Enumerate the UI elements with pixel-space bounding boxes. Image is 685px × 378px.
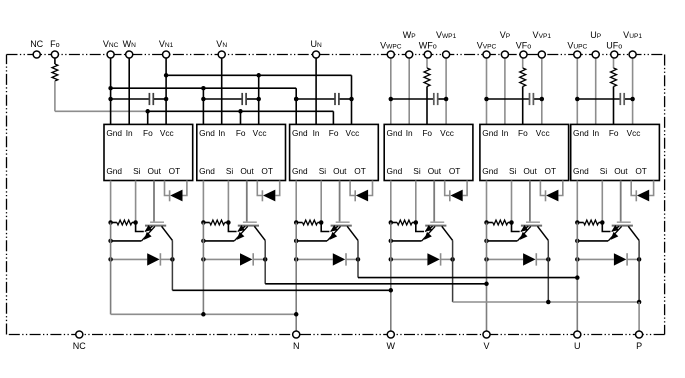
svg-text:Fo: Fo xyxy=(236,128,246,138)
junction dot cap C2 right xyxy=(256,97,261,102)
svg-text:V: V xyxy=(483,341,489,351)
svg-text:Gnd: Gnd xyxy=(106,128,122,138)
svg-text:Vcc: Vcc xyxy=(440,128,454,138)
wire WP terminal to driver 4 In xyxy=(408,55,410,125)
wire VVPC terminal to driver 5 Gnd xyxy=(486,55,488,125)
junction dot emitter/Gnd xyxy=(484,239,489,244)
terminal WN xyxy=(123,39,137,58)
wire VUP1 terminal to driver 6 Vcc xyxy=(632,55,634,125)
svg-text:Vcc: Vcc xyxy=(160,128,174,138)
svg-text:Out: Out xyxy=(614,166,628,176)
wire driver 1 Fo from rail xyxy=(147,111,149,124)
terminal UN xyxy=(310,39,322,58)
terminal VUP1 xyxy=(623,30,642,58)
svg-text:UFo: UFo xyxy=(606,40,622,50)
wire Q5 emitter/Gnd vertical to output terminal xyxy=(486,223,488,335)
wire WFo resistor to driver 4 Fo xyxy=(426,87,428,125)
OT clamp diode D3a xyxy=(355,190,368,202)
svg-text:WP: WP xyxy=(403,30,417,40)
wire Q6 collector to P terminal xyxy=(638,302,640,335)
svg-text:OT: OT xyxy=(354,166,366,176)
freewheel diode D6 xyxy=(614,253,627,265)
capacitor C4 plates xyxy=(434,93,438,105)
wire P rail (Q4/Q5/Q6 collectors) xyxy=(453,301,639,303)
svg-text:WFo: WFo xyxy=(419,40,437,50)
IGBT Q5 xyxy=(517,222,548,241)
gate driver IC U2 xyxy=(197,124,286,180)
wire N rail (emitters of Q1,Q2,Q3) xyxy=(111,313,297,315)
junction dot cap C1 right xyxy=(164,97,169,102)
junction dot cap C1 left xyxy=(108,97,113,102)
svg-text:Fo: Fo xyxy=(329,128,339,138)
junction dot emitter/Gnd xyxy=(575,239,580,244)
capacitor C3 leads (driver 3 Gnd-Vcc) xyxy=(296,98,351,100)
wire driver 2 Gnd pin stub xyxy=(202,181,204,223)
wire driver 3 Out pin (gate) stub xyxy=(339,181,341,222)
svg-text:VN: VN xyxy=(216,39,227,49)
junction dot R4 right (Si node) xyxy=(414,220,419,225)
freewheel diode D2 cathode lead xyxy=(253,258,265,260)
freewheel diode D3 xyxy=(333,253,346,265)
OT clamp diode D5a xyxy=(546,190,559,202)
terminal P (bottom) xyxy=(636,331,643,351)
wire driver 2 Vcc from rail xyxy=(258,75,260,124)
junction dot N rail / N column xyxy=(294,312,299,317)
wire Si node to sense emitter xyxy=(512,223,520,232)
wire main emitter to Gnd line xyxy=(111,240,142,242)
freewheel diode D4 cathode lead xyxy=(441,258,453,260)
terminal U (bottom) xyxy=(574,331,581,351)
wire driver 3 Fo from rail xyxy=(332,111,334,124)
module outline border (dash-dot) xyxy=(7,55,665,335)
wire VFo terminal to resistor xyxy=(522,55,524,69)
OT clamp diode D4a xyxy=(450,190,463,202)
resistor on UFo line xyxy=(611,68,617,87)
svg-text:VN1: VN1 xyxy=(159,39,174,49)
svg-text:VFo: VFo xyxy=(516,40,532,50)
capacitor C4 leads (driver 4 Gnd-Vcc) xyxy=(391,98,446,100)
resistor on VFo line xyxy=(520,68,526,87)
svg-text:Si: Si xyxy=(413,166,421,176)
gate driver IC U6 xyxy=(571,124,660,180)
svg-text:U: U xyxy=(574,341,581,351)
svg-text:OT: OT xyxy=(449,166,461,176)
wire Q1 collector to W node xyxy=(172,289,390,291)
freewheel diode D3 anode lead xyxy=(296,258,333,260)
junction dot ground rail / driver 3 Gnd xyxy=(294,97,299,102)
wire WN terminal to driver 1 In xyxy=(128,55,130,125)
junction dot cap C2 left xyxy=(201,97,206,102)
freewheel diode D1 anode lead xyxy=(111,258,148,260)
wire main emitter to Gnd line xyxy=(487,240,518,242)
wire driver 6 Si pin stub xyxy=(601,181,603,223)
freewheel diode D5 anode lead xyxy=(487,258,524,260)
junction dot D3 cathode xyxy=(356,257,361,262)
junction dot Fo rail / driver 1 Fo xyxy=(145,109,150,114)
capacitor C6 leads (driver 6 Gnd-Vcc) xyxy=(577,98,632,100)
junction dot R6 left xyxy=(575,220,580,225)
terminal VVP1 xyxy=(533,30,552,58)
svg-text:OT: OT xyxy=(261,166,273,176)
junction dot R3 left xyxy=(294,220,299,225)
junction dot emitter/Gnd xyxy=(108,239,113,244)
junction dot cap C5 left xyxy=(484,97,489,102)
IGBT Q2 xyxy=(234,222,265,241)
wire main emitter to Gnd line xyxy=(296,240,327,242)
wire driver 5 OT diode bracket xyxy=(540,181,562,196)
svg-text:Out: Out xyxy=(428,166,442,176)
wire driver 6 Out pin (gate) stub xyxy=(620,181,622,222)
wire driver 1 OT diode bracket xyxy=(165,181,187,196)
wire Q5 collector vertical xyxy=(547,240,549,302)
svg-text:W: W xyxy=(387,341,396,351)
wire Si node to sense emitter xyxy=(136,223,144,232)
junction dot D5 anode xyxy=(484,257,489,262)
svg-text:Si: Si xyxy=(600,166,608,176)
capacitor C1 leads (driver 1 Gnd-Vcc) xyxy=(111,98,167,100)
wire driver 1 Gnd pin stub xyxy=(110,181,112,223)
wire VWPC terminal to driver 4 Gnd xyxy=(390,55,392,125)
capacitor C6 plates xyxy=(620,93,624,105)
junction dot R1 right (Si node) xyxy=(133,220,138,225)
wire Si node to sense emitter xyxy=(416,223,424,232)
svg-text:In: In xyxy=(406,128,413,138)
junction dot cap C3 left xyxy=(294,97,299,102)
svg-text:N: N xyxy=(293,341,300,351)
wire driver 4 Si pin stub xyxy=(415,181,417,223)
junction dot D4 cathode xyxy=(450,257,455,262)
junction dot R1 left xyxy=(108,220,113,225)
svg-text:Fo: Fo xyxy=(422,128,432,138)
wire VFo resistor to driver 5 Fo xyxy=(522,87,524,125)
wire Q3 collector to U node xyxy=(358,277,577,279)
terminal VNC xyxy=(103,39,119,58)
wire main emitter to Gnd line xyxy=(391,240,422,242)
gate driver IC U4 xyxy=(384,124,473,180)
terminal V (bottom) xyxy=(483,331,490,351)
svg-text:P: P xyxy=(636,341,642,351)
junction dot D2 cathode xyxy=(263,257,268,262)
freewheel diode D2 anode lead xyxy=(203,258,240,260)
svg-text:UN: UN xyxy=(310,39,322,49)
wire Fo resistor down to Fo rail xyxy=(54,81,56,111)
junction dot D6 anode xyxy=(575,257,580,262)
resistor on WFo line xyxy=(424,68,430,87)
IGBT Q3 xyxy=(327,222,358,241)
wire driver 3 OT diode bracket xyxy=(350,181,372,196)
svg-text:Out: Out xyxy=(148,166,162,176)
wire UN terminal to driver 3 In xyxy=(315,55,317,125)
svg-text:Fo: Fo xyxy=(50,39,60,49)
capacitor C2 plates xyxy=(242,93,246,105)
capacitor C1 plates xyxy=(149,93,153,105)
terminal WP xyxy=(403,30,417,58)
wire driver 5 Gnd pin stub xyxy=(486,181,488,223)
wire VNC terminal to driver 1 Gnd xyxy=(110,55,112,125)
wire Q1 collector vertical xyxy=(171,240,173,290)
svg-text:Gnd: Gnd xyxy=(106,166,122,176)
terminal UFo xyxy=(606,40,622,58)
terminal WFo xyxy=(419,40,437,58)
wire driver 5 Out pin (gate) stub xyxy=(529,181,531,222)
wire Q2 collector to V node xyxy=(265,283,486,285)
svg-text:Si: Si xyxy=(319,166,327,176)
junction dot D3 anode xyxy=(294,257,299,262)
terminal VUPC xyxy=(567,40,587,58)
svg-text:Gnd: Gnd xyxy=(199,128,215,138)
junction dot N rail / Q2 emitter xyxy=(201,312,206,317)
svg-text:Fo: Fo xyxy=(518,128,528,138)
freewheel diode D6 anode lead xyxy=(577,258,614,260)
wire WFo terminal to resistor xyxy=(426,55,428,69)
OT clamp diode D6a xyxy=(636,190,649,202)
svg-text:Fo: Fo xyxy=(609,128,619,138)
junction dot emitter/Gnd xyxy=(389,239,394,244)
wire VVP1 terminal to driver 5 Vcc xyxy=(541,55,543,125)
wire driver 2 Si pin stub xyxy=(227,181,229,223)
freewheel diode D3 cathode lead xyxy=(346,258,358,260)
terminal VP xyxy=(500,30,511,58)
wire UFo terminal to resistor xyxy=(613,55,615,69)
wire VUPC terminal to driver 6 Gnd xyxy=(576,55,578,125)
wire driver 2 OT diode bracket xyxy=(257,181,279,196)
junction dot cap C6 left xyxy=(575,97,580,102)
wire Si node to sense emitter xyxy=(602,223,610,232)
wire driver 6 OT diode bracket xyxy=(631,181,653,196)
capacitor C2 leads (driver 2 Gnd-Vcc) xyxy=(203,98,258,100)
wire Q2 collector vertical xyxy=(264,240,266,283)
wire UP terminal to driver 6 In xyxy=(595,55,597,125)
wire UFo resistor to driver 6 Fo xyxy=(613,87,615,125)
svg-text:Gnd: Gnd xyxy=(482,128,498,138)
terminal W (bottom) xyxy=(387,331,396,351)
junction dot P rail / Q6 collector xyxy=(637,300,642,305)
junction dot cap C4 left xyxy=(389,97,394,102)
sense resistor R3 xyxy=(296,220,321,225)
svg-text:Out: Out xyxy=(333,166,347,176)
wire driver 3 Si pin stub xyxy=(320,181,322,223)
sense resistor R4 xyxy=(391,220,416,225)
junction dot R2 left xyxy=(201,220,206,225)
svg-text:VNC: VNC xyxy=(103,39,119,49)
svg-text:OT: OT xyxy=(635,166,647,176)
svg-text:VUP1: VUP1 xyxy=(623,30,642,40)
wire driver 6 Gnd pin stub xyxy=(576,181,578,223)
terminal VN xyxy=(216,39,227,58)
junction dot ground rail / driver 2 Gnd xyxy=(201,86,206,91)
terminal N (bottom) xyxy=(293,331,300,351)
svg-text:OT: OT xyxy=(545,166,557,176)
terminal UP xyxy=(590,30,602,58)
wire VN1 terminal to driver 1 Vcc xyxy=(165,55,167,125)
junction dot Vcc rail / driver 2 Vcc xyxy=(256,73,261,78)
wire driver 4 OT diode bracket xyxy=(445,181,467,196)
wire Q3 emitter/Gnd vertical xyxy=(295,223,297,335)
junction dot Vcc rail / VN1 xyxy=(164,73,169,78)
wire VWP1 terminal to driver 4 Vcc xyxy=(445,55,447,125)
junction dot D5 cathode xyxy=(546,257,551,262)
svg-text:VVPC: VVPC xyxy=(477,40,497,50)
wire driver 4 Gnd pin stub xyxy=(390,181,392,223)
junction dot R3 right (Si node) xyxy=(319,220,324,225)
wire Q6 collector vertical xyxy=(638,240,640,302)
svg-text:NC: NC xyxy=(73,341,86,351)
wire driver 3 Gnd pin stub xyxy=(295,181,297,223)
wire Fo terminal to resistor xyxy=(54,55,56,65)
OT clamp diode D2a xyxy=(262,190,275,202)
IGBT Q6 xyxy=(608,222,639,241)
wire driver 2 Gnd from rail xyxy=(202,88,204,124)
junction dot D2 anode xyxy=(201,257,206,262)
wire driver 5 Si pin stub xyxy=(511,181,513,223)
svg-text:In: In xyxy=(592,128,599,138)
junction dot P rail / Q5 collector xyxy=(546,300,551,305)
wire Q6 emitter/Gnd vertical to output terminal xyxy=(576,223,578,335)
freewheel diode D6 cathode lead xyxy=(627,258,639,260)
svg-text:Gnd: Gnd xyxy=(387,128,403,138)
sense resistor R1 xyxy=(111,220,136,225)
svg-text:Vcc: Vcc xyxy=(345,128,359,138)
wire driver 4 Out pin (gate) stub xyxy=(433,181,435,222)
capacitor C3 plates xyxy=(335,93,339,105)
svg-text:Gnd: Gnd xyxy=(292,128,308,138)
gate driver IC U3 xyxy=(290,124,379,180)
junction dot emitter/Gnd xyxy=(201,239,206,244)
junction dot Q3 collector / U column xyxy=(575,275,580,280)
junction dot R2 right (Si node) xyxy=(226,220,231,225)
terminal VWPC xyxy=(380,40,402,58)
IGBT Q4 xyxy=(422,222,453,241)
svg-text:Gnd: Gnd xyxy=(482,166,498,176)
junction dot cap C5 right xyxy=(540,97,545,102)
wire VN1 Vcc rail (row A) xyxy=(166,75,351,124)
junction dot D1 cathode xyxy=(170,257,175,262)
svg-text:VWPC: VWPC xyxy=(380,40,402,50)
resistor on Fo line xyxy=(52,64,58,81)
junction dot D1 anode xyxy=(108,257,113,262)
terminal NC xyxy=(30,39,43,58)
wire Si node to sense emitter xyxy=(321,223,329,232)
junction dot cap C4 right xyxy=(444,97,449,102)
svg-text:Gnd: Gnd xyxy=(573,128,589,138)
svg-text:OT: OT xyxy=(169,166,181,176)
IGBT Q1 xyxy=(142,222,173,241)
junction dot R4 left xyxy=(389,220,394,225)
terminal Fo xyxy=(50,39,60,58)
svg-text:Vcc: Vcc xyxy=(253,128,267,138)
wire Si node to sense emitter xyxy=(228,223,236,232)
wire Q2 emitter/Gnd vertical xyxy=(202,223,204,315)
junction dot R6 right (Si node) xyxy=(600,220,605,225)
terminal VFo xyxy=(516,40,532,58)
sense resistor R2 xyxy=(203,220,228,225)
terminal VVPC xyxy=(477,40,497,58)
junction dot Q2 collector / V column xyxy=(484,282,489,287)
wire driver 1 Out pin (gate) stub xyxy=(153,181,155,222)
svg-text:Si: Si xyxy=(509,166,517,176)
svg-text:UP: UP xyxy=(590,30,602,40)
wire driver 3 Gnd into box xyxy=(295,99,297,124)
freewheel diode D1 cathode lead xyxy=(160,258,172,260)
svg-text:Vcc: Vcc xyxy=(536,128,550,138)
OT clamp diode D1a xyxy=(170,190,183,202)
terminal VN1 xyxy=(159,39,174,58)
svg-text:Out: Out xyxy=(523,166,537,176)
svg-text:Out: Out xyxy=(240,166,254,176)
freewheel diode D1 xyxy=(147,253,160,265)
svg-text:VVP1: VVP1 xyxy=(533,30,552,40)
gate driver IC U5 xyxy=(480,124,569,180)
junction dot R5 left xyxy=(484,220,489,225)
wire main emitter to Gnd line xyxy=(203,240,234,242)
wire driver 2 Out pin (gate) stub xyxy=(246,181,248,222)
junction dot cap C6 right xyxy=(630,97,635,102)
svg-text:Gnd: Gnd xyxy=(292,166,308,176)
sense resistor R6 xyxy=(577,220,602,225)
svg-text:NC: NC xyxy=(30,39,43,49)
wire Q4 collector vertical xyxy=(452,240,454,302)
junction dot ground rail / VNC xyxy=(108,86,113,91)
junction dot Q1 collector / W column xyxy=(389,288,394,293)
wire Q3 collector vertical xyxy=(357,240,359,277)
svg-text:Si: Si xyxy=(133,166,141,176)
wire main emitter to Gnd line xyxy=(577,240,608,242)
svg-text:VUPC: VUPC xyxy=(567,40,587,50)
wire driver 2 Fo from rail xyxy=(240,111,242,124)
junction dot emitter/Gnd xyxy=(294,239,299,244)
junction dot cap C3 right xyxy=(349,97,354,102)
terminal VWP1 xyxy=(436,30,457,58)
freewheel diode D4 xyxy=(427,253,440,265)
capacitor C5 leads (driver 5 Gnd-Vcc) xyxy=(487,98,542,100)
freewheel diode D5 xyxy=(523,253,536,265)
wire VP terminal to driver 5 In xyxy=(504,55,506,125)
freewheel diode D5 cathode lead xyxy=(536,258,548,260)
svg-text:Si: Si xyxy=(226,166,234,176)
wire driver 1 Si pin stub xyxy=(135,181,137,223)
terminal NC (bottom) xyxy=(73,331,86,351)
junction dot R5 right (Si node) xyxy=(509,220,514,225)
svg-text:In: In xyxy=(218,128,225,138)
freewheel diode D2 xyxy=(240,253,253,265)
svg-text:Fo: Fo xyxy=(143,128,153,138)
wire VN terminal to driver 2 In xyxy=(221,55,223,125)
svg-text:Gnd: Gnd xyxy=(573,166,589,176)
freewheel diode D4 anode lead xyxy=(391,258,428,260)
gate driver IC U1 xyxy=(104,124,193,180)
svg-text:Gnd: Gnd xyxy=(199,166,215,176)
svg-text:WN: WN xyxy=(123,39,137,49)
svg-text:VP: VP xyxy=(500,30,511,40)
capacitor C5 plates xyxy=(530,93,534,105)
svg-text:In: In xyxy=(313,128,320,138)
svg-text:VWP1: VWP1 xyxy=(436,30,457,40)
svg-text:In: In xyxy=(126,128,133,138)
junction dot Fo rail / driver 2 Fo xyxy=(238,109,243,114)
svg-text:In: In xyxy=(501,128,508,138)
svg-text:Gnd: Gnd xyxy=(387,166,403,176)
wire Fo rail (row to Fo pins of N-side drivers) xyxy=(55,110,334,112)
junction dot D6 cathode xyxy=(637,257,642,262)
svg-text:Vcc: Vcc xyxy=(627,128,641,138)
junction dot D4 anode xyxy=(389,257,394,262)
wire VNC ground rail (row B) xyxy=(111,88,297,99)
wire Q1 emitter/Gnd vertical xyxy=(110,223,112,315)
sense resistor R5 xyxy=(487,220,512,225)
wire Q4 emitter/Gnd vertical to output terminal xyxy=(390,223,392,335)
